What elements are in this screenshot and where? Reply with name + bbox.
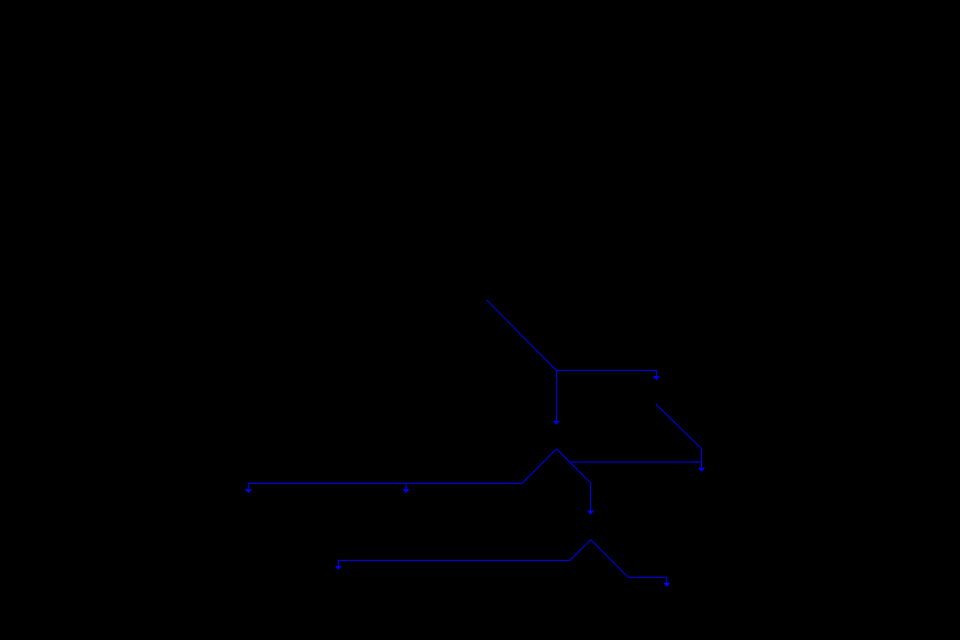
arrowhead: into node C: [653, 376, 660, 380]
arrowhead: mid target: [402, 489, 409, 493]
arrowhead: bottom-left target: [335, 566, 342, 570]
wire: node B right leg diagonal: [557, 449, 591, 511]
wire: long horizontal to far-left target: [248, 483, 522, 489]
wire: horizontal from node A junction to right child: [556, 370, 656, 376]
arrowhead: far-left target: [245, 489, 252, 493]
wire: branch horizontal from node B right leg to shared target: [570, 461, 702, 463]
arrowhead: shared target node E: [698, 468, 705, 472]
wire: mid drop stub: [405, 483, 407, 489]
wire: long horizontal to bottom-left target: [338, 560, 570, 566]
arrowhead: into node D: [587, 511, 594, 515]
wire: vertical from node A junction to left child: [555, 370, 557, 421]
wire: node D right leg diagonal: [591, 540, 667, 583]
wire: node D left leg diagonal: [570, 540, 591, 561]
wire: root diagonal A: [486, 300, 556, 371]
wire: node C diagonal to shared target: [656, 404, 702, 468]
wire: node B left leg diagonal: [522, 449, 556, 484]
arrowhead: into node B: [553, 421, 560, 425]
arrowhead: bottom-right target: [663, 583, 670, 587]
